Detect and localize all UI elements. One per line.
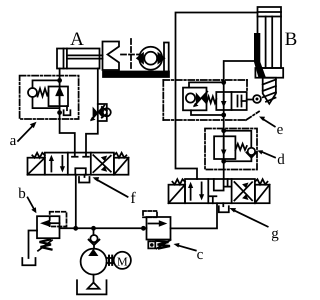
valve f left solenoid [28, 158, 45, 175]
wire: main line B rod side [224, 61, 254, 179]
wire: valve g A-port to cylinder B cap [176, 13, 258, 180]
e-box dash-dot border [163, 80, 259, 120]
wire: d bypass [224, 131, 252, 147]
wire: a-box relief branch [33, 80, 60, 88]
label g [229, 208, 279, 242]
node: e top junction [221, 80, 226, 85]
relief valve b [37, 216, 60, 238]
node: supply-f junction [73, 226, 78, 231]
tank [77, 280, 107, 294]
svg-text:d: d [277, 152, 285, 168]
valve g center square blocked ports [209, 179, 231, 203]
wire: A rod-side pipe [86, 69, 98, 153]
valve b spring [38, 240, 52, 251]
spring of relief a [38, 89, 49, 97]
valve g left spring [172, 179, 185, 184]
valve f body [45, 153, 114, 175]
a-box drain tank [64, 106, 71, 115]
check valve (pump outlet) [89, 228, 100, 249]
node: a-box bottom junction [57, 110, 62, 115]
valve g right spring [255, 179, 268, 184]
wire: throttle bottom connector [191, 110, 224, 115]
wire: valve c to valve g P [171, 203, 218, 228]
svg-text:c: c [197, 247, 204, 263]
valve c drain boxlet [148, 241, 155, 248]
cylinder B [255, 7, 283, 78]
one-way throttle (e-box) [183, 88, 207, 111]
clamp centerline [121, 39, 139, 69]
svg-text:f: f [130, 190, 136, 207]
label c [174, 243, 204, 263]
fixture wall [164, 43, 169, 72]
valve g left square arrows [188, 182, 204, 201]
wire: valve f P to supply [75, 175, 77, 229]
valve f right solenoid [114, 158, 129, 175]
reducing valve d [214, 136, 235, 159]
valve b pilot box [50, 212, 67, 227]
node: a-box top junction [57, 78, 62, 83]
cam bracket [254, 33, 266, 78]
sequence valve c [147, 217, 171, 240]
valve g right square crossed arrows [234, 182, 252, 201]
node: e bottom junction [221, 113, 226, 118]
valve e spring [207, 97, 217, 104]
one-way throttle (A side) bypass [98, 104, 107, 121]
d bypass check ball [224, 148, 257, 162]
bypass check ball [103, 108, 111, 116]
wire: pump to tank [93, 275, 95, 283]
svg-text:B: B [285, 29, 298, 50]
valve b tank [22, 258, 35, 265]
label d [257, 150, 285, 168]
valve f tank [79, 175, 90, 183]
node: d top junction [221, 128, 226, 133]
deceleration valve e [216, 92, 246, 110]
label a [10, 122, 37, 149]
label f [93, 177, 137, 207]
label e [259, 117, 284, 139]
valve f right spring [114, 153, 127, 158]
wire: valve b drain [29, 231, 38, 259]
valve f right square crossed arrows [93, 155, 111, 172]
svg-text:g: g [271, 226, 279, 242]
node: supply-pump junction [91, 226, 96, 231]
valve c pilot box [143, 211, 157, 217]
valve f center square blocked ports [72, 153, 89, 175]
wire: A cap-side pipe [60, 69, 75, 153]
counterbalance valve a [49, 87, 69, 107]
svg-text:M: M [117, 254, 128, 268]
a-box dash-dot border [20, 76, 79, 119]
drill tool [263, 78, 276, 104]
wire: throttle top connector [189, 82, 224, 87]
cylinder A [57, 49, 103, 69]
wire: supply line [60, 227, 147, 229]
wire: relief drain [33, 97, 60, 108]
svg-text:b: b [18, 186, 26, 202]
valve g body [185, 179, 255, 203]
relief ball a [28, 88, 37, 97]
valve g tank [219, 203, 229, 212]
valve f left square arrows [49, 155, 65, 173]
valve c spring [156, 240, 171, 249]
fixture base [103, 72, 169, 78]
node: supply-c junction [141, 226, 146, 231]
valve d spring [235, 144, 246, 150]
valve g right solenoid [255, 185, 270, 204]
d-box dash-dot border [205, 129, 257, 170]
svg-text:A: A [70, 29, 84, 50]
clamp jaw [103, 42, 120, 71]
motor M [107, 252, 131, 269]
roller of valve e [247, 95, 261, 103]
throttle bowtie [90, 106, 104, 122]
pump [81, 249, 107, 275]
workpiece [137, 47, 164, 70]
valve g left solenoid [169, 185, 186, 204]
valve f left spring [32, 153, 45, 158]
label b [18, 186, 36, 213]
svg-text:e: e [277, 122, 284, 138]
svg-text:a: a [10, 133, 17, 149]
node: d bottom junction [221, 159, 226, 164]
